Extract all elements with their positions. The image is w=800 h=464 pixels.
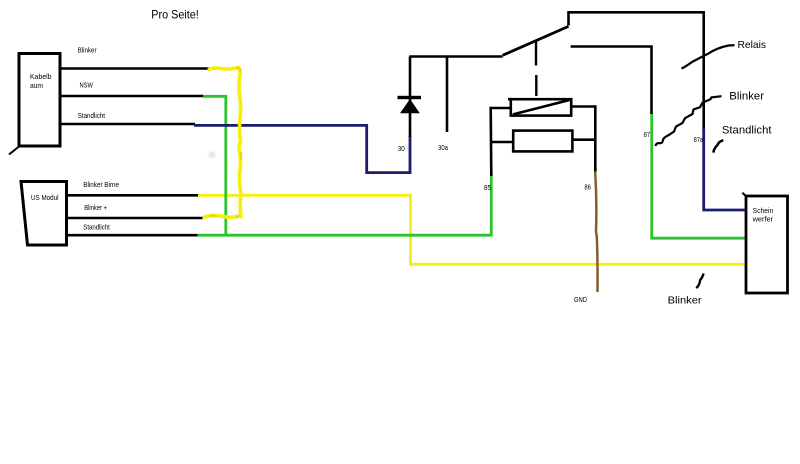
wire US Modul Blinker + black stub xyxy=(67,217,203,220)
svg-text:Pro Seite!: Pro Seite! xyxy=(151,8,199,22)
relay coil lower box xyxy=(513,131,572,152)
wire blue relay 87a to Scheinwerfer xyxy=(704,128,746,211)
wire Kabelbaum Blinker black stub xyxy=(60,67,209,70)
svg-text:Blinker Birne: Blinker Birne xyxy=(83,180,119,189)
svg-text:Kabelb: Kabelb xyxy=(30,72,52,81)
pointer to yellow wire xyxy=(696,274,703,289)
svg-text:87a: 87a xyxy=(694,135,704,144)
box US Modul xyxy=(21,182,67,246)
svg-text:aum: aum xyxy=(30,81,43,90)
svg-text:Blinker: Blinker xyxy=(668,295,703,307)
svg-text:Standlicht: Standlicht xyxy=(83,222,110,231)
svg-text:87: 87 xyxy=(644,130,651,139)
connector box Kabelbaum xyxy=(9,54,60,155)
diode D1 cathode bar xyxy=(398,96,422,99)
svg-text:Relais: Relais xyxy=(738,39,767,51)
svg-text:Blinker: Blinker xyxy=(78,46,97,55)
svg-text:Blinker +: Blinker + xyxy=(84,203,107,212)
wire relay common 30 horizontal xyxy=(409,55,502,58)
svg-text:85: 85 xyxy=(484,183,491,192)
wire relay 30 vertical with diode xyxy=(409,57,412,138)
svg-text:Blinker: Blinker xyxy=(729,91,764,103)
svg-text:30a: 30a xyxy=(438,143,449,152)
diode D1 body xyxy=(400,99,420,113)
svg-text:Standlicht: Standlicht xyxy=(722,125,772,137)
svg-text:30: 30 xyxy=(398,144,405,153)
wire blue Kabelbaum Standlicht to relay 30 xyxy=(194,125,410,172)
svg-text:Standlicht: Standlicht xyxy=(78,111,106,120)
wire brown relay 86 to GND xyxy=(595,172,597,292)
relay right bracket to 86 xyxy=(571,105,595,172)
wire Kabelbaum NSW black stub xyxy=(60,95,204,98)
box Scheinwerfer xyxy=(746,196,788,293)
relay top bar wire xyxy=(569,12,704,128)
wire green NSW to relay 85 xyxy=(203,96,226,235)
wire relay 30a vertical xyxy=(446,57,449,133)
pointer to 87 wire xyxy=(656,96,722,146)
wire US Modul Standlicht black stub xyxy=(67,234,198,237)
pointer to relay xyxy=(682,45,735,68)
svg-text:werfer: werfer xyxy=(752,215,774,224)
wire US Modul Blinker Birne black stub xyxy=(67,194,200,197)
wire green Standlicht bus to relay 85 xyxy=(198,175,492,236)
wire yellow freehand Kabelbaum Blinker to US Modul Blinker + xyxy=(203,68,241,218)
wire yellow Blinker Birne to Scheinwerfer xyxy=(198,195,746,264)
stray smudge xyxy=(208,151,217,159)
relay actuator dashed link xyxy=(535,41,537,66)
svg-text:US Modul: US Modul xyxy=(31,193,59,202)
relay switch arm xyxy=(503,26,569,55)
relay left bracket to 85 xyxy=(490,107,513,176)
pointer to 87a wire xyxy=(713,140,723,152)
svg-text:86: 86 xyxy=(584,183,591,192)
wire yellow freehand accents xyxy=(209,68,241,218)
relay coil upper box xyxy=(508,99,571,115)
svg-text:NSW: NSW xyxy=(80,81,94,90)
wire green relay 87 to Scheinwerfer xyxy=(652,113,746,238)
wire Kabelbaum Standlicht black stub xyxy=(60,123,195,126)
wire relay 87 horizontal xyxy=(571,47,652,115)
svg-text:GND: GND xyxy=(574,295,587,304)
